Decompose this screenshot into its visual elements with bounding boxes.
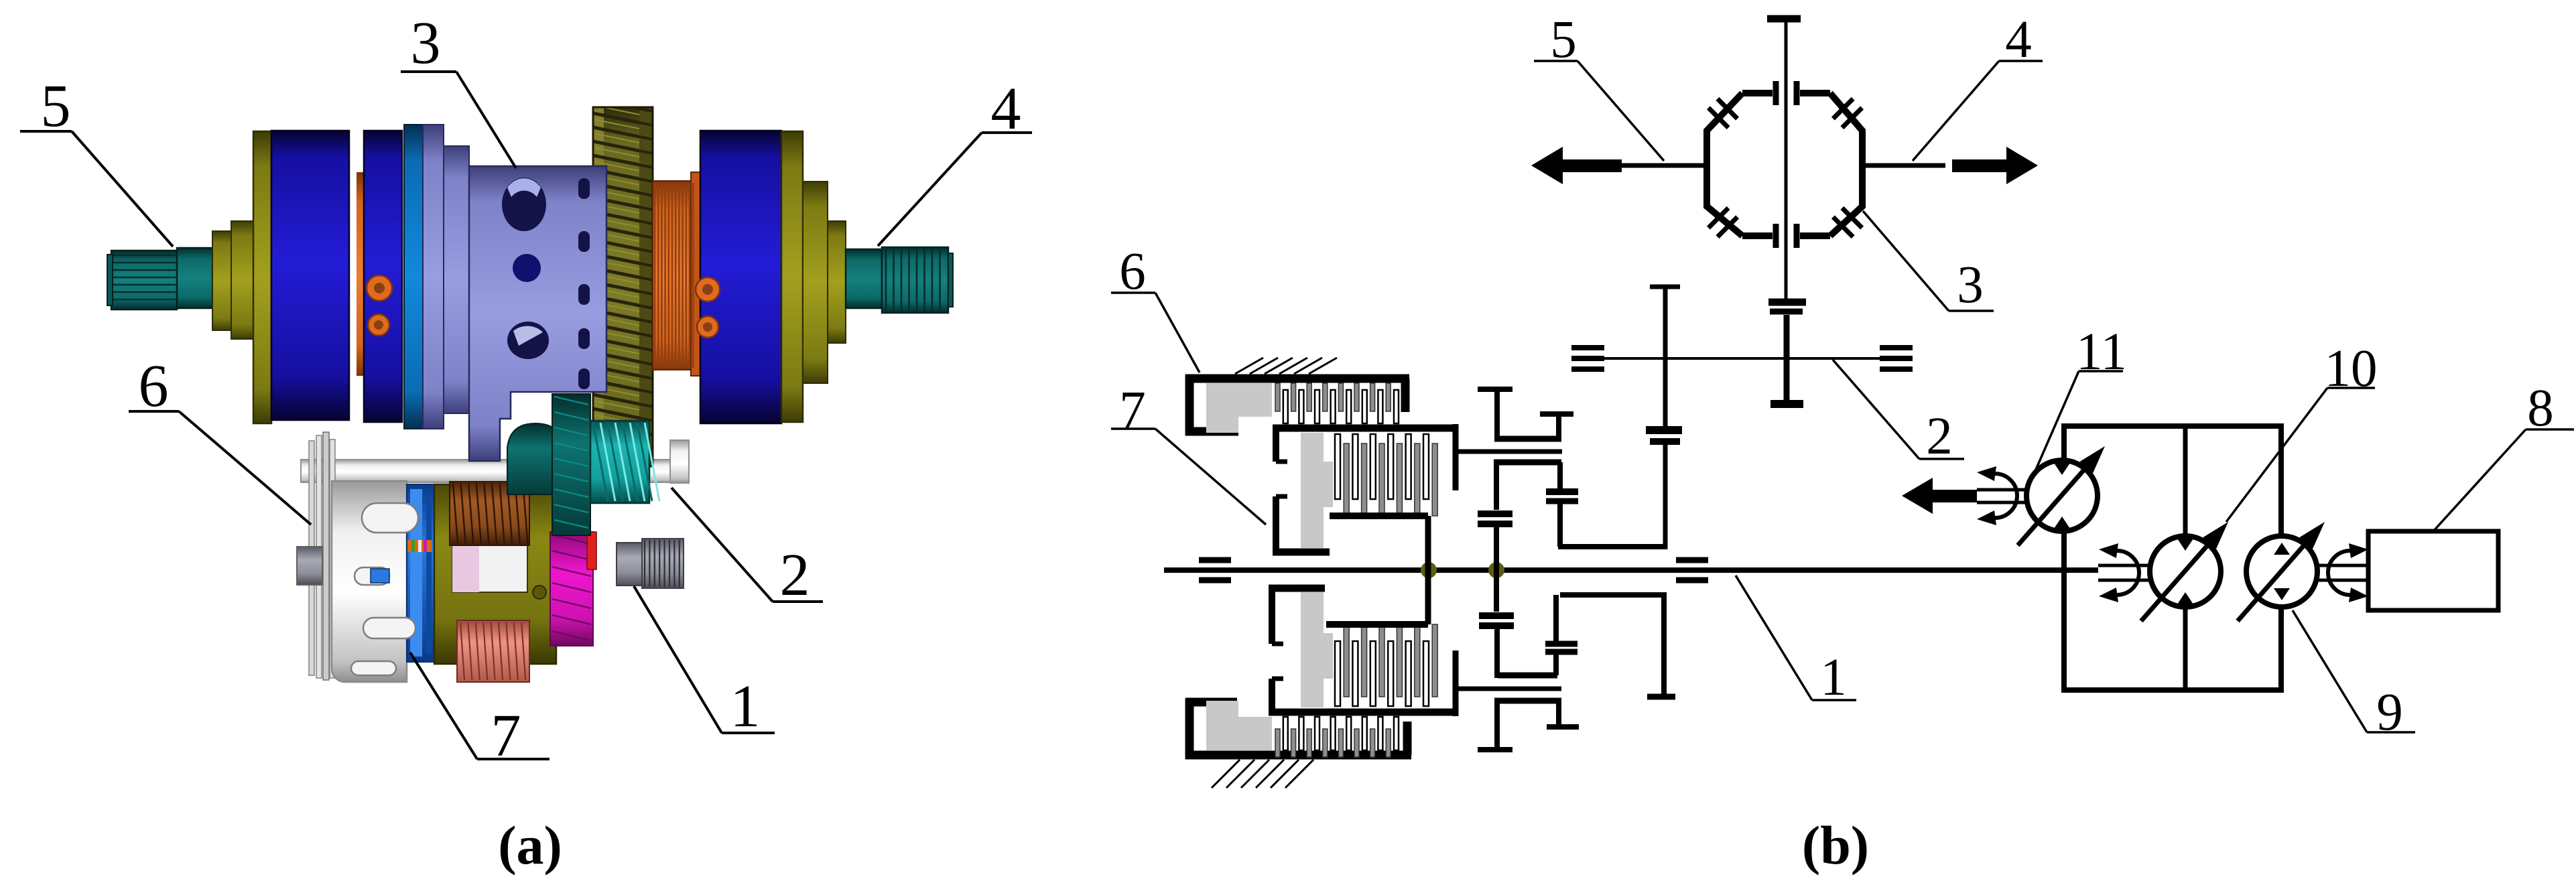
- gear C-bracket (upper): [1494, 462, 1561, 510]
- clutch 7 piston (upper, grey): [1301, 433, 1333, 548]
- side gear tick (bottom right): [1794, 224, 1800, 248]
- bevel hub (dark teal): [507, 423, 564, 494]
- hydraulic motor 11 (variable): [2018, 446, 2105, 545]
- svg-text:4: 4: [2005, 11, 2032, 69]
- clutch drum (lower): [1269, 586, 1456, 712]
- hollow shaft link (lower): [1560, 595, 1675, 697]
- svg-text:5: 5: [1550, 11, 1577, 69]
- label 10 (b): [2226, 340, 2378, 522]
- input shaft 1: [1164, 567, 2098, 573]
- label 6 (b): [1111, 243, 1200, 372]
- circuit line (mid, through pump 10): [2183, 426, 2188, 690]
- clutch 7 plate pack (upper): [1335, 434, 1437, 516]
- hydraulic machine housing (blue cylinder, right): [700, 131, 781, 423]
- carrier drum slots: [351, 503, 418, 675]
- label 1 (b): [1736, 575, 1856, 707]
- svg-text:7: 7: [1119, 381, 1146, 439]
- svg-text:(b): (b): [1802, 815, 1869, 876]
- svg-text:11: 11: [2076, 323, 2127, 381]
- gear bracket bar (upper): [1494, 436, 1561, 442]
- figure (a): 3D CAD rendering of hydromechanical transmission: [20, 10, 1032, 769]
- hydraulic machine housing (blue cylinder, left): [271, 131, 349, 420]
- clutch 7 drum (upper): [1273, 428, 1457, 554]
- clutch hub 7 (blue plate stack): [407, 484, 440, 662]
- svg-text:5: 5: [41, 73, 71, 139]
- orange ribbed coupling: [653, 172, 700, 376]
- countershaft 2: [1576, 357, 1911, 360]
- hollow shaft link (upper): [1558, 544, 1667, 549]
- planet carrier back flange plates: [309, 432, 335, 680]
- clutch 7 output rail (upper): [1330, 516, 1428, 570]
- svg-text:6: 6: [139, 353, 169, 419]
- figure (b): kinematic schematic: [1111, 11, 2574, 788]
- gear shaft end T (lower right): [1547, 701, 1579, 727]
- gear bracket bar (lower): [1498, 673, 1557, 679]
- rotation arrows (motor 11): [1977, 466, 2017, 525]
- gear shaft end T (upper right): [1540, 414, 1573, 441]
- circuit line (left, through motor 11): [2062, 426, 2067, 690]
- pump 9 shaft to engine (double line): [2317, 565, 2368, 580]
- gear mesh (lower left pair): [1479, 570, 1514, 678]
- svg-text:2: 2: [780, 542, 810, 608]
- label 2 (b): [1833, 360, 1964, 466]
- label 5 (b): [1534, 11, 1664, 161]
- label 2 (a): [671, 488, 823, 608]
- engine 8 (box): [2368, 531, 2498, 610]
- output arrow right: [1952, 147, 2038, 184]
- label 8 (b): [2433, 379, 2574, 531]
- svg-text:3: 3: [1957, 256, 1984, 314]
- node: shaft junction left: [1421, 562, 1437, 578]
- main helical gear (olive): [593, 99, 653, 483]
- label 6 (a): [129, 353, 311, 525]
- clutch gear (dark teal helical): [552, 394, 590, 535]
- rotor drum 3 (lavender, with holes): [469, 166, 606, 461]
- ring gear (magenta helical): [550, 532, 596, 646]
- svg-text:1: 1: [1820, 649, 1847, 707]
- output drum (olive): [434, 484, 556, 664]
- bearing (countershaft right): [1880, 348, 1913, 369]
- label 7 (a): [410, 653, 550, 769]
- lavender step ring: [444, 146, 469, 413]
- svg-text:(a): (a): [498, 815, 562, 876]
- svg-text:3: 3: [411, 10, 441, 76]
- svg-text:2: 2: [1926, 407, 1953, 466]
- input shaft 1 splined end (grey): [617, 539, 684, 588]
- label 11 (b): [2033, 323, 2127, 476]
- label 3 (b): [1863, 211, 1994, 314]
- gear shaft end T (lower left): [1478, 701, 1512, 750]
- label 4 (b): [1913, 11, 2043, 161]
- svg-text:6: 6: [1119, 243, 1146, 301]
- ground hatching (upper): [1235, 358, 1337, 374]
- brake plate pack (lower): [1275, 717, 1399, 757]
- gear mesh (upper left pair): [1478, 514, 1512, 570]
- brake 6 housing (upper, grounded): [1185, 375, 1409, 435]
- label 4 (a): [878, 76, 1032, 246]
- orange spacer ring: [357, 172, 364, 376]
- label 7 (b): [1111, 381, 1266, 525]
- svg-text:10: 10: [2325, 340, 2378, 398]
- svg-text:9: 9: [2376, 683, 2403, 742]
- clutch drum gear line (lower): [1456, 651, 1561, 716]
- bevel gear mark (SE): [1833, 208, 1862, 236]
- bevel gear mark (SW): [1708, 208, 1737, 236]
- label 1 (a): [634, 586, 775, 740]
- axle shaft right (to 4): [1862, 163, 1945, 168]
- bearing (shaft 1 left): [1199, 560, 1231, 580]
- gear mesh (upper right pair): [1546, 462, 1578, 547]
- svg-text:4: 4: [991, 76, 1021, 142]
- label 3 (a): [401, 10, 516, 168]
- gear bracket bottom bar (lower): [1494, 698, 1561, 704]
- side gear tick (top right): [1794, 81, 1800, 105]
- clutch rail (lower): [1326, 570, 1428, 624]
- rotation arrows (pump 10): [2099, 543, 2139, 602]
- bevel gear mark (NE): [1833, 98, 1862, 127]
- hydraulic circuit frame: [2064, 426, 2281, 690]
- countershaft gear (right, to differential): [1768, 302, 1806, 404]
- svg-text:1: 1: [730, 673, 761, 740]
- orange bolts (left): [367, 275, 392, 336]
- planet carrier drum 6 (white): [297, 481, 407, 682]
- label 9 (b): [2293, 610, 2415, 742]
- sun gear (copper): [450, 482, 529, 545]
- gear mesh (lower right pair): [1545, 595, 1577, 675]
- planet gear (salmon): [457, 620, 529, 682]
- side gear tick (top left): [1773, 81, 1779, 105]
- bearing (shaft 1 mid): [1676, 560, 1708, 580]
- clutch piston (lower, grey): [1301, 592, 1333, 707]
- axle shaft left (to 5): [1643, 163, 1707, 168]
- shaft end T (top): [1767, 15, 1801, 23]
- differential 3 (bevel gear set): [1707, 19, 1862, 299]
- hydraulic pump 10 (variable): [2141, 522, 2228, 621]
- pump 10 input shaft (double line): [2098, 565, 2150, 580]
- charge pump 9 (variable): [2238, 522, 2325, 621]
- gear mesh (countershaft-clutch): [1646, 430, 1682, 549]
- brake housing (lower, grounded): [1185, 699, 1411, 759]
- brake piston (lower, grey): [1206, 701, 1272, 750]
- brake 6 piston (upper, grey): [1206, 383, 1272, 433]
- gear shaft end T (upper left): [1478, 389, 1512, 441]
- intermediate shaft 2 (white cylinder): [301, 440, 689, 483]
- svg-text:7: 7: [491, 703, 521, 769]
- blue cylinder section 2: [364, 131, 402, 422]
- ground hatching (lower): [1212, 760, 1313, 788]
- lavender ring: [423, 125, 444, 429]
- side gear tick (bottom left): [1773, 224, 1779, 248]
- label 5 (a): [20, 73, 173, 247]
- left end cap (olive): [212, 131, 271, 423]
- countershaft gear (left, to clutch): [1650, 287, 1680, 430]
- clutch plate pack (lower): [1335, 624, 1437, 706]
- orange bolts (right): [696, 277, 720, 338]
- output shaft 5 (teal splined): [107, 248, 212, 310]
- right end flange (olive): [781, 131, 846, 422]
- circuit line (right, through pump 9): [2279, 426, 2284, 690]
- output shaft 4 (teal splined): [846, 247, 953, 313]
- transfer gear (cyan helical): [590, 421, 659, 503]
- bevel gear mark (NW): [1708, 98, 1737, 127]
- bearing (countershaft left): [1571, 348, 1604, 369]
- differential cage shaft: [1785, 22, 1788, 299]
- node: shaft junction right: [1488, 562, 1504, 578]
- output arrow (motor 11, bold left): [1902, 478, 1977, 514]
- azure clamp ring: [404, 125, 423, 429]
- svg-text:8: 8: [2527, 379, 2554, 437]
- brake 6 plate pack (upper): [1275, 383, 1399, 423]
- rotation arrows (pump 9): [2328, 543, 2368, 602]
- differential housing octagon: [1707, 93, 1862, 236]
- output arrow left: [1531, 147, 1707, 184]
- clutch drum gear line (upper): [1456, 424, 1562, 490]
- motor 11 output shaft (double line): [1977, 490, 2027, 502]
